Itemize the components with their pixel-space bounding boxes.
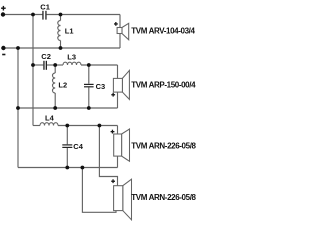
node C2-L2-L3 <box>53 63 57 67</box>
wire C4 top stub <box>66 126 68 145</box>
svg-text:L2: L2 <box>58 81 67 90</box>
svg-text:C2: C2 <box>41 52 51 61</box>
capacitor C3 plates <box>84 84 94 85</box>
svg-text:C4: C4 <box>73 142 83 151</box>
node row2 return x18 <box>16 106 20 110</box>
wire row2 rail left of C2 <box>33 64 43 66</box>
wire speaker4 return <box>82 168 116 213</box>
wire L2 bottom stub <box>54 93 56 108</box>
svg-text:TVM ARN-226-05/8: TVM ARN-226-05/8 <box>131 193 196 202</box>
node - input terminal <box>1 46 5 50</box>
speaker U2 (midrange) <box>113 70 129 99</box>
wire C3 top stub <box>88 65 90 84</box>
wire L2 top stub <box>54 65 56 73</box>
+ mark speaker2 <box>111 94 115 95</box>
wire speaker3 feed <box>117 126 119 135</box>
wire vertical minus bus x18 <box>17 48 19 168</box>
node C1-L1-speaker1 <box>59 13 63 17</box>
wire speaker4 feed drop <box>99 126 117 186</box>
inductor L1 <box>58 21 61 41</box>
wire row2 rail C2 to L3 <box>47 64 63 66</box>
svg-text:L3: L3 <box>67 53 76 62</box>
node woofer2 tap <box>98 124 102 128</box>
+ mark speaker4 <box>111 181 115 182</box>
wire speaker3 return <box>117 156 119 167</box>
speaker U1 (tweeter) <box>117 23 129 40</box>
wire speaker1 return <box>119 34 121 49</box>
svg-text:TVM ARV-104-03/4: TVM ARV-104-03/4 <box>131 26 195 35</box>
svg-text:TVM ARP-150-00/4: TVM ARP-150-00/4 <box>131 81 196 90</box>
wire L1 top stub <box>60 15 62 21</box>
wire L4 row bend to coil <box>33 125 40 127</box>
speaker U4 (woofer 2) <box>114 179 132 220</box>
node minus rail x18 <box>16 46 20 50</box>
svg-text:C1: C1 <box>40 2 50 11</box>
node C4 bottom <box>65 166 69 170</box>
wire C3 bottom stub <box>88 87 90 108</box>
wire vertical bus from + input down to L4 row <box>32 15 34 126</box>
+ input mark <box>1 8 6 9</box>
wire L1 bottom stub <box>60 41 62 49</box>
inductor L2 <box>53 73 56 93</box>
wire C4 bottom stub <box>66 148 68 168</box>
inductor L4 <box>40 123 58 126</box>
wire speaker2 return <box>117 92 119 108</box>
+ mark speaker3 <box>111 131 115 132</box>
inductor L3 <box>63 62 81 65</box>
node L3-C3-speaker2 <box>87 63 91 67</box>
wire speaker1 feed <box>119 15 121 28</box>
wire woofer bottom rail <box>18 167 118 169</box>
wire L4 to speaker3 <box>58 125 118 127</box>
svg-text:L1: L1 <box>65 27 74 36</box>
wire row2 rail L3 to speaker2 corner <box>81 64 118 66</box>
wire speaker2 feed <box>117 65 119 78</box>
svg-text:C3: C3 <box>96 82 106 91</box>
node row2 input <box>31 63 35 67</box>
node L2 bottom <box>53 106 57 110</box>
capacitor C1 plates <box>42 11 43 20</box>
wire minus rail <box>3 47 120 49</box>
- input mark <box>2 54 5 56</box>
wire row2 return rail <box>18 107 118 109</box>
speaker U3 (woofer 1) <box>114 129 130 161</box>
svg-text:L4: L4 <box>45 114 55 123</box>
capacitor C2 plates <box>43 61 44 70</box>
node C3 bottom <box>87 106 91 110</box>
+ mark speaker1 <box>114 23 118 24</box>
wire top rail left of C1 <box>3 14 42 16</box>
node woofer2 return tap <box>81 166 85 170</box>
wire top rail C1 to speaker 1 <box>47 14 120 16</box>
node top rail to vertical bus <box>31 13 35 17</box>
node L4-C4 <box>65 124 69 128</box>
node L1 bottom <box>59 46 63 50</box>
svg-text:TVM ARN-226-05/8: TVM ARN-226-05/8 <box>131 142 196 151</box>
node + input terminal <box>1 12 5 16</box>
capacitor C4 plates <box>62 144 72 145</box>
